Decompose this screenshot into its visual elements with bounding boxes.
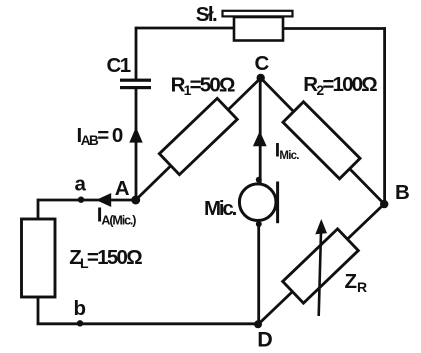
- capacitor C1 plates: [120, 79, 151, 90]
- node C: [257, 74, 265, 82]
- svg-text:A: A: [115, 177, 130, 200]
- svg-text:ZR: ZR: [345, 270, 368, 295]
- wire top-right horizontal: [283, 27, 385, 30]
- node A: [131, 196, 140, 205]
- wire horizontal a-A: [38, 199, 136, 202]
- svg-text:a: a: [75, 173, 87, 196]
- svg-text:C: C: [255, 52, 270, 75]
- svg-text:Mic.: Mic.: [204, 197, 237, 220]
- microphone side bar: [276, 182, 279, 224]
- headphone Sl body: [223, 11, 293, 41]
- arrow current I_Mic up: [253, 131, 267, 146]
- svg-text:IAB= 0: IAB= 0: [77, 124, 123, 148]
- resistor R1 body: [159, 98, 237, 174]
- arrow current I_AB up: [129, 127, 142, 143]
- wire ZL bottom vertical: [37, 297, 40, 324]
- node b: [77, 320, 83, 326]
- resistor R2 body: [283, 102, 360, 179]
- wire left vertical lower (C1 to node A): [135, 88, 138, 201]
- wire bottom horizontal b-D: [37, 322, 258, 325]
- microphone circle: [239, 184, 276, 221]
- svg-text:ZL=150Ω: ZL=150Ω: [69, 246, 142, 271]
- wire diagonal D-B: [258, 204, 384, 325]
- svg-text:R2=100Ω: R2=100Ω: [303, 73, 377, 98]
- wire microphone to D: [257, 221, 260, 324]
- resistor ZL body: [22, 219, 56, 297]
- node D: [254, 320, 262, 328]
- wire diagonal C-B: [261, 78, 385, 204]
- wire left vertical upper (above C1): [135, 27, 138, 80]
- svg-text:D: D: [257, 328, 273, 352]
- resistor ZR body: [283, 229, 359, 303]
- svg-text:Sł.: Sł.: [196, 3, 217, 26]
- node a: [78, 197, 84, 203]
- svg-text:B: B: [395, 181, 410, 204]
- variable arrow through ZR: [315, 219, 327, 316]
- junction microphone bottom: [256, 221, 262, 227]
- svg-text:C1: C1: [107, 54, 131, 77]
- wire C to microphone: [259, 78, 262, 184]
- svg-text:R1=50Ω: R1=50Ω: [171, 73, 235, 98]
- junction microphone top: [256, 177, 262, 183]
- svg-text:IA(Mic.): IA(Mic.): [97, 204, 137, 228]
- wire top-left horizontal: [136, 27, 233, 30]
- wire diagonal A-C: [136, 78, 261, 200]
- arrow current I_A(Mic) left: [96, 193, 111, 207]
- wire right vertical: [383, 27, 386, 204]
- wire left corner vertical to ZL: [37, 199, 40, 219]
- node B: [380, 200, 388, 208]
- svg-text:b: b: [74, 297, 87, 320]
- svg-text:IMic.: IMic.: [275, 140, 299, 162]
